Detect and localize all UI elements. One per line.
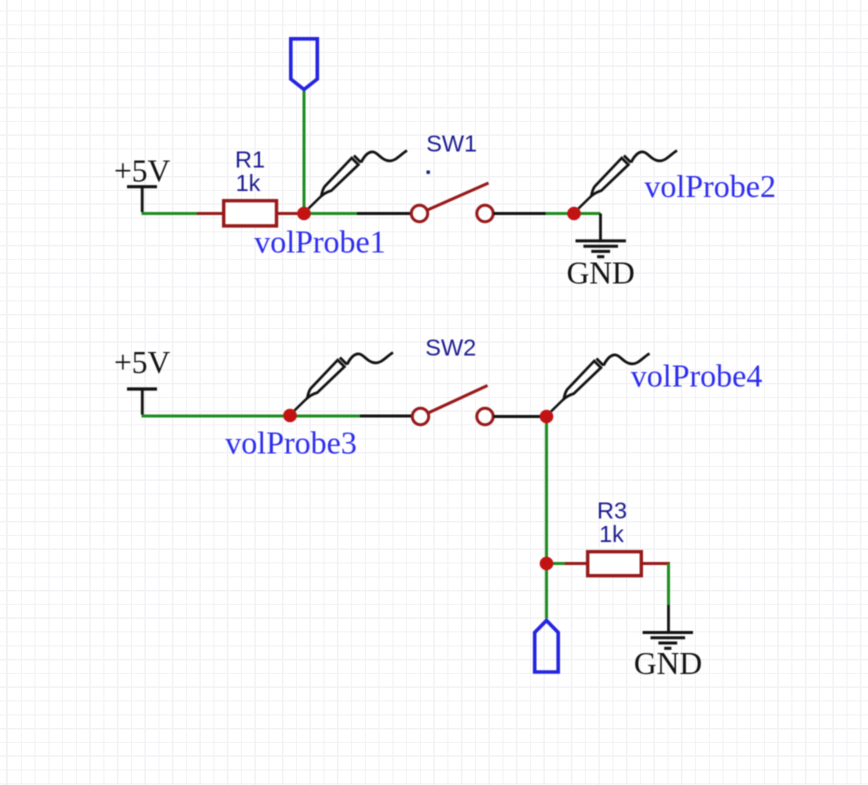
svg-text:GND: GND (634, 646, 702, 681)
svg-text:volProbe2: volProbe2 (644, 168, 776, 204)
svg-text:R3: R3 (597, 498, 627, 524)
svg-text:R1: R1 (235, 147, 265, 173)
svg-text:volProbe3: volProbe3 (225, 425, 357, 461)
svg-text:volProbe4: volProbe4 (631, 358, 763, 394)
svg-text:GND: GND (567, 256, 635, 291)
svg-text:volProbe1: volProbe1 (254, 224, 386, 260)
svg-text:1k: 1k (599, 521, 624, 547)
svg-text:+5V: +5V (114, 154, 171, 189)
svg-text:1k: 1k (236, 170, 261, 196)
svg-text:+5V: +5V (114, 345, 171, 380)
svg-text:SW1: SW1 (426, 131, 477, 157)
svg-text:SW2: SW2 (425, 335, 476, 361)
